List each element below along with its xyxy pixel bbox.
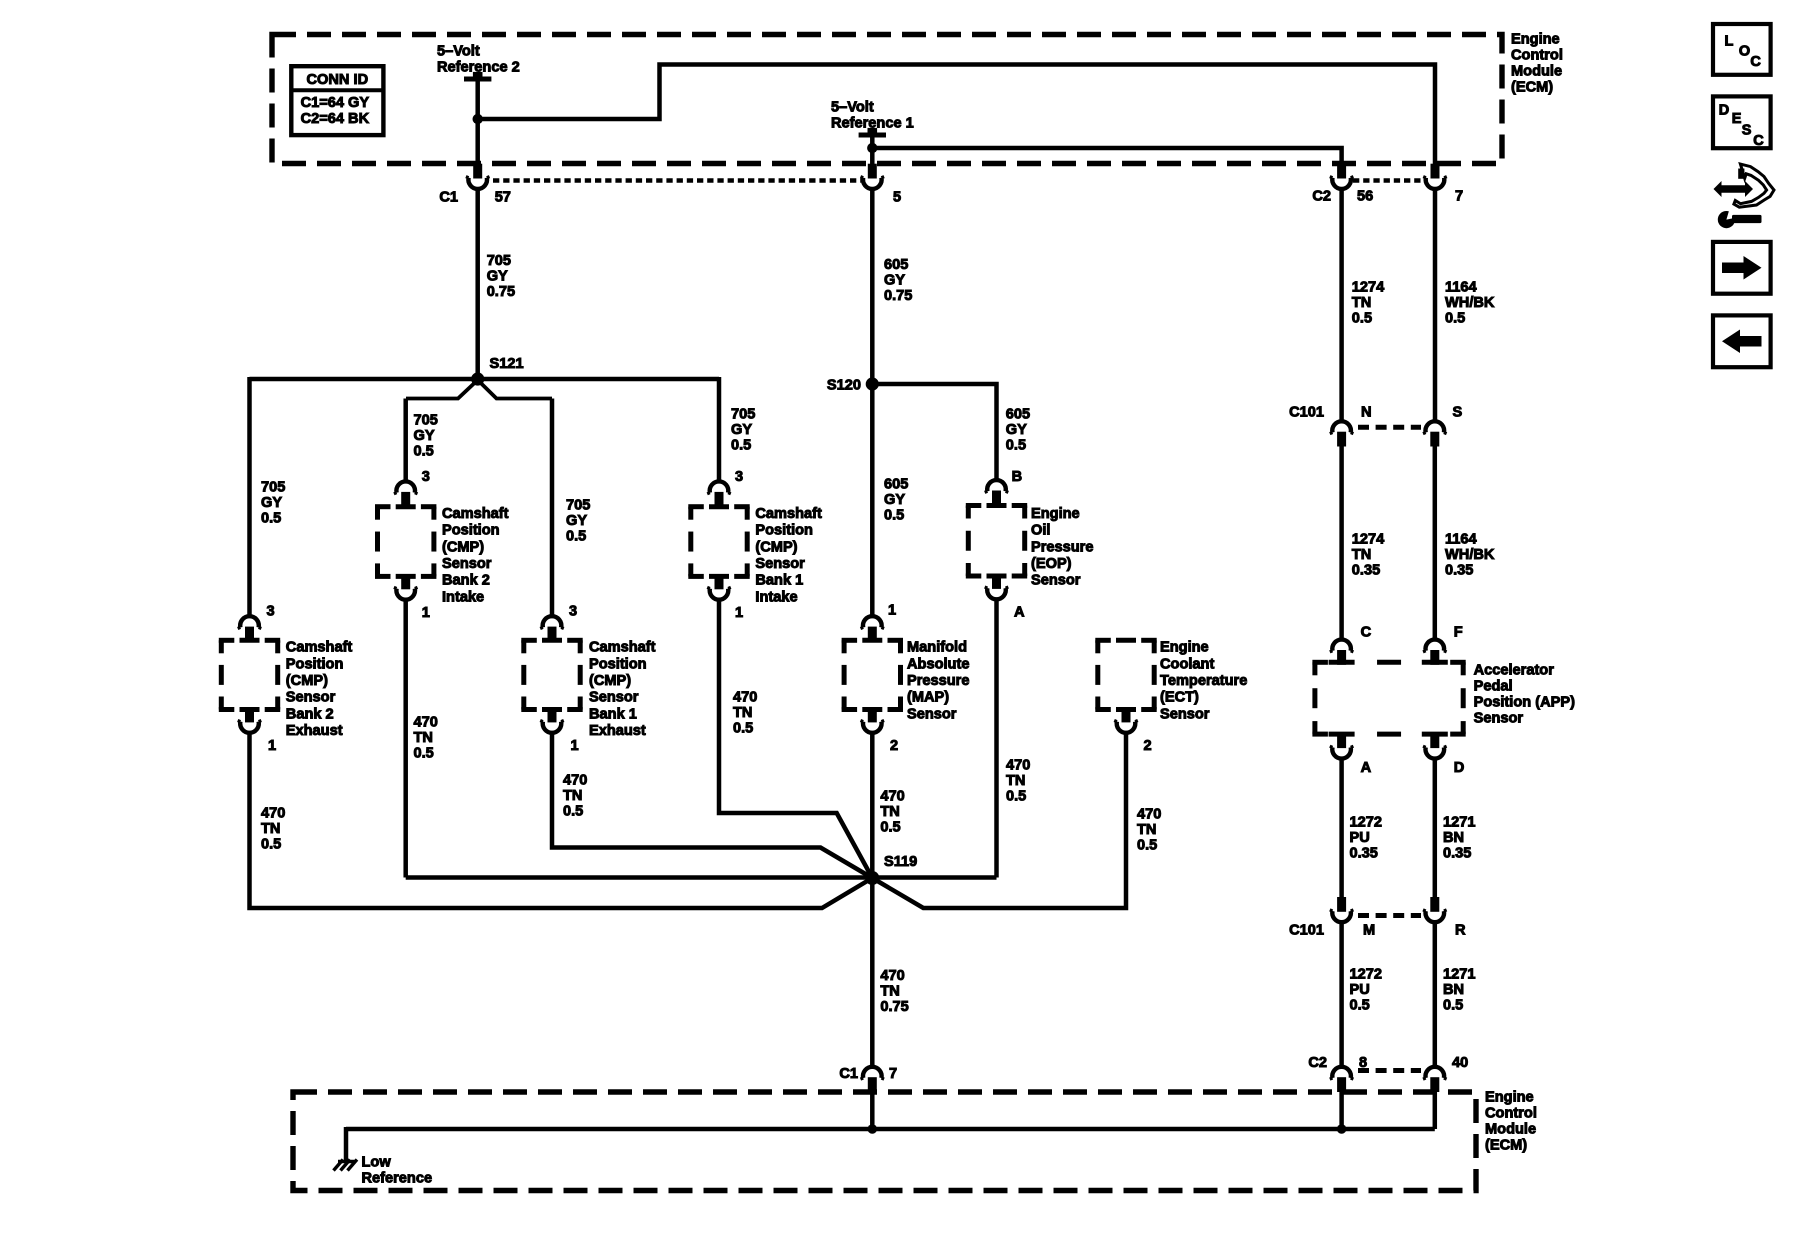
svg-text:Pressure: Pressure	[907, 673, 969, 689]
svg-text:Exhaust: Exhaust	[286, 723, 343, 739]
svg-text:Position: Position	[286, 656, 344, 672]
svg-text:TN: TN	[1352, 295, 1371, 311]
svg-text:GY: GY	[884, 273, 905, 289]
svg-text:TN: TN	[261, 821, 280, 837]
svg-text:A: A	[1014, 605, 1025, 621]
svg-text:Bank 1: Bank 1	[589, 706, 637, 722]
svg-text:0.75: 0.75	[880, 999, 908, 1015]
svg-text:470: 470	[1137, 807, 1161, 823]
svg-text:605: 605	[884, 477, 908, 493]
svg-text:Control: Control	[1511, 47, 1563, 63]
svg-text:Reference 2: Reference 2	[437, 59, 520, 75]
svg-text:1271: 1271	[1443, 815, 1475, 831]
svg-text:GY: GY	[566, 513, 587, 529]
svg-text:PU: PU	[1350, 982, 1370, 998]
svg-text:0.35: 0.35	[1443, 846, 1471, 862]
svg-text:CONN ID: CONN ID	[306, 72, 368, 88]
svg-text:A: A	[1361, 760, 1372, 776]
svg-text:C2: C2	[1308, 1055, 1327, 1071]
svg-text:0.5: 0.5	[1137, 838, 1157, 854]
svg-text:Position: Position	[755, 523, 813, 539]
svg-text:D: D	[1454, 760, 1465, 776]
svg-text:C101: C101	[1289, 405, 1324, 421]
svg-text:Camshaft: Camshaft	[755, 506, 822, 522]
svg-text:TN: TN	[414, 730, 433, 746]
svg-text:Control: Control	[1485, 1105, 1537, 1121]
svg-text:Camshaft: Camshaft	[442, 506, 509, 522]
svg-text:S120: S120	[827, 378, 861, 394]
svg-text:5: 5	[893, 190, 901, 206]
svg-text:GY: GY	[884, 492, 905, 508]
svg-text:0.5: 0.5	[1006, 438, 1026, 454]
svg-text:Engine: Engine	[1160, 640, 1209, 656]
svg-text:(ECT): (ECT)	[1160, 690, 1199, 706]
svg-text:GY: GY	[261, 495, 282, 511]
svg-text:Engine: Engine	[1031, 506, 1080, 522]
svg-text:C: C	[1750, 54, 1761, 70]
svg-text:0.35: 0.35	[1445, 563, 1473, 579]
svg-text:40: 40	[1452, 1055, 1468, 1071]
svg-text:Module: Module	[1511, 63, 1562, 79]
svg-text:BN: BN	[1443, 982, 1464, 998]
svg-text:TN: TN	[1006, 773, 1025, 789]
svg-text:WH/BK: WH/BK	[1445, 547, 1495, 563]
svg-text:1: 1	[888, 603, 896, 619]
svg-text:0.5: 0.5	[261, 510, 281, 526]
svg-text:605: 605	[1006, 407, 1030, 423]
svg-text:1: 1	[735, 605, 743, 621]
svg-text:605: 605	[884, 257, 908, 273]
svg-text:1271: 1271	[1443, 967, 1475, 983]
svg-text:Sensor: Sensor	[286, 690, 336, 706]
svg-text:L: L	[1725, 34, 1734, 50]
svg-text:0.5: 0.5	[566, 528, 586, 544]
svg-text:Sensor: Sensor	[1474, 711, 1524, 727]
svg-text:0.5: 0.5	[1352, 310, 1372, 326]
svg-text:C: C	[1753, 133, 1764, 149]
svg-text:D: D	[1719, 103, 1729, 119]
svg-text:C1=64 GY: C1=64 GY	[301, 95, 370, 111]
svg-text:GY: GY	[414, 428, 435, 444]
svg-text:1: 1	[422, 605, 430, 621]
svg-text:Position: Position	[442, 523, 500, 539]
svg-text:C1: C1	[439, 190, 458, 206]
svg-text:S121: S121	[490, 356, 524, 372]
svg-text:Sensor: Sensor	[1031, 573, 1081, 589]
svg-text:0.5: 0.5	[261, 836, 281, 852]
svg-text:Exhaust: Exhaust	[589, 723, 646, 739]
svg-text:S: S	[1453, 405, 1463, 421]
svg-text:1274: 1274	[1352, 532, 1385, 548]
svg-text:C1: C1	[839, 1066, 858, 1082]
svg-text:(CMP): (CMP)	[589, 673, 631, 689]
svg-text:470: 470	[880, 789, 904, 805]
svg-text:0.5: 0.5	[733, 720, 753, 736]
svg-text:(CMP): (CMP)	[755, 539, 797, 555]
svg-text:705: 705	[414, 412, 438, 428]
svg-text:705: 705	[566, 497, 590, 513]
svg-text:S: S	[1742, 123, 1752, 139]
svg-text:O: O	[1739, 44, 1750, 60]
svg-text:0.5: 0.5	[1445, 310, 1465, 326]
svg-text:C101: C101	[1289, 922, 1324, 938]
svg-text:Position (APP): Position (APP)	[1474, 695, 1575, 711]
svg-text:(ECM): (ECM)	[1485, 1137, 1527, 1153]
svg-text:3: 3	[569, 604, 577, 620]
svg-text:0.5: 0.5	[414, 745, 434, 761]
svg-text:C2: C2	[1312, 189, 1331, 205]
svg-text:B: B	[1012, 469, 1023, 485]
svg-text:0.75: 0.75	[487, 284, 515, 300]
svg-text:S119: S119	[884, 854, 917, 870]
svg-text:Reference 1: Reference 1	[831, 115, 914, 131]
svg-text:Accelerator: Accelerator	[1474, 663, 1555, 679]
svg-text:2: 2	[1144, 738, 1152, 754]
svg-text:Coolant: Coolant	[1160, 656, 1214, 672]
svg-text:(ECM): (ECM)	[1511, 79, 1553, 95]
svg-text:Sensor: Sensor	[442, 556, 492, 572]
svg-text:0.35: 0.35	[1350, 846, 1378, 862]
svg-text:0.5: 0.5	[880, 820, 900, 836]
svg-text:Reference: Reference	[362, 1170, 433, 1186]
svg-text:5–Volt: 5–Volt	[437, 43, 480, 59]
svg-text:(CMP): (CMP)	[286, 673, 328, 689]
svg-text:TN: TN	[1352, 547, 1371, 563]
svg-text:0.5: 0.5	[884, 508, 904, 524]
svg-text:Absolute: Absolute	[907, 656, 969, 672]
svg-text:470: 470	[261, 805, 285, 821]
svg-text:0.75: 0.75	[884, 288, 912, 304]
svg-text:Pedal: Pedal	[1474, 679, 1513, 695]
svg-text:GY: GY	[487, 269, 508, 285]
svg-text:Sensor: Sensor	[1160, 706, 1210, 722]
svg-text:8: 8	[1359, 1055, 1367, 1071]
svg-text:7: 7	[1455, 189, 1463, 205]
svg-text:Temperature: Temperature	[1160, 673, 1247, 689]
svg-text:TN: TN	[880, 804, 899, 820]
svg-text:0.5: 0.5	[563, 803, 583, 819]
svg-text:Bank 2: Bank 2	[442, 573, 490, 589]
svg-text:470: 470	[1006, 757, 1030, 773]
svg-text:1164: 1164	[1445, 279, 1478, 295]
svg-text:WH/BK: WH/BK	[1445, 295, 1495, 311]
svg-text:0.5: 0.5	[1006, 788, 1026, 804]
svg-text:0.5: 0.5	[414, 443, 434, 459]
svg-text:Position: Position	[589, 656, 647, 672]
svg-text:705: 705	[731, 406, 755, 422]
svg-text:57: 57	[495, 190, 511, 206]
svg-text:1272: 1272	[1350, 815, 1382, 831]
svg-text:Sensor: Sensor	[907, 706, 957, 722]
svg-text:0.35: 0.35	[1352, 563, 1380, 579]
svg-text:Bank 1: Bank 1	[755, 573, 803, 589]
svg-text:C2=64 BK: C2=64 BK	[301, 111, 370, 127]
svg-text:3: 3	[735, 469, 743, 485]
svg-text:0.5: 0.5	[1350, 998, 1370, 1014]
svg-text:705: 705	[487, 253, 511, 269]
svg-text:Engine: Engine	[1511, 31, 1560, 47]
svg-text:Manifold: Manifold	[907, 640, 967, 656]
svg-text:TN: TN	[563, 788, 582, 804]
svg-text:2: 2	[890, 738, 898, 754]
svg-text:(CMP): (CMP)	[442, 539, 484, 555]
svg-text:1272: 1272	[1350, 967, 1382, 983]
svg-text:(EOP): (EOP)	[1031, 556, 1072, 572]
svg-text:C: C	[1361, 625, 1372, 641]
svg-text:GY: GY	[731, 422, 752, 438]
svg-text:TN: TN	[880, 984, 899, 1000]
svg-text:R: R	[1455, 922, 1466, 938]
svg-text:1: 1	[268, 738, 276, 754]
svg-text:(MAP): (MAP)	[907, 690, 949, 706]
svg-text:Low: Low	[362, 1154, 392, 1170]
svg-text:470: 470	[733, 689, 757, 705]
svg-text:56: 56	[1357, 189, 1373, 205]
svg-text:TN: TN	[733, 705, 752, 721]
svg-text:Pressure: Pressure	[1031, 539, 1093, 555]
svg-text:PU: PU	[1350, 830, 1370, 846]
svg-text:N: N	[1361, 405, 1372, 421]
svg-text:Camshaft: Camshaft	[286, 640, 353, 656]
svg-text:0.5: 0.5	[731, 437, 751, 453]
svg-text:Sensor: Sensor	[755, 556, 805, 572]
svg-text:3: 3	[422, 469, 430, 485]
svg-text:Sensor: Sensor	[589, 690, 639, 706]
svg-text:F: F	[1454, 625, 1463, 641]
svg-text:1274: 1274	[1352, 279, 1385, 295]
svg-text:470: 470	[880, 968, 904, 984]
svg-text:Module: Module	[1485, 1121, 1536, 1137]
svg-text:BN: BN	[1443, 830, 1464, 846]
svg-text:Camshaft: Camshaft	[589, 640, 656, 656]
svg-text:E: E	[1732, 111, 1742, 127]
svg-text:M: M	[1363, 922, 1375, 938]
svg-text:7: 7	[889, 1066, 897, 1082]
svg-text:705: 705	[261, 479, 285, 495]
svg-text:5–Volt: 5–Volt	[831, 99, 874, 115]
svg-text:Oil: Oil	[1031, 523, 1050, 539]
svg-text:GY: GY	[1006, 422, 1027, 438]
svg-text:1164: 1164	[1445, 532, 1478, 548]
svg-text:0.5: 0.5	[1443, 998, 1463, 1014]
svg-text:Bank 2: Bank 2	[286, 706, 334, 722]
svg-text:1: 1	[571, 738, 579, 754]
svg-text:470: 470	[414, 714, 438, 730]
svg-text:Engine: Engine	[1485, 1089, 1534, 1105]
svg-text:470: 470	[563, 772, 587, 788]
svg-text:3: 3	[267, 604, 275, 620]
svg-text:Intake: Intake	[442, 589, 484, 605]
svg-text:TN: TN	[1137, 822, 1156, 838]
svg-text:Intake: Intake	[755, 589, 797, 605]
